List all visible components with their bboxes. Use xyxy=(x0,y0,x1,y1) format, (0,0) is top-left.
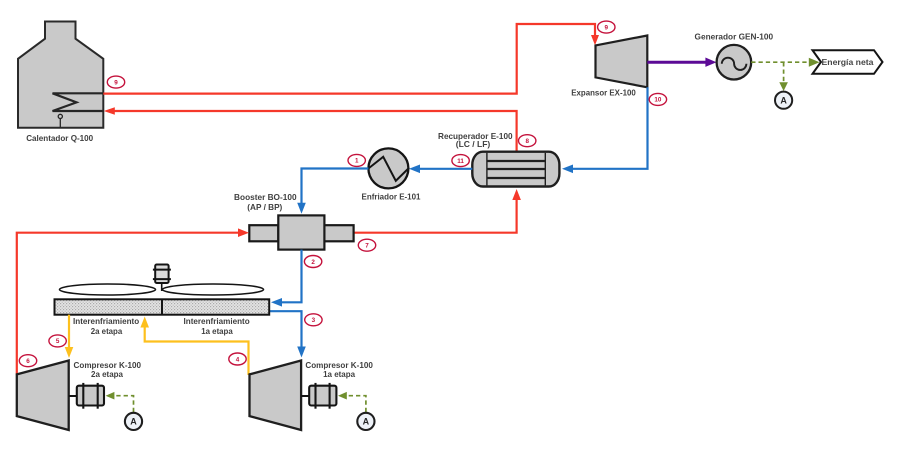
compressor K-100 2a etapa xyxy=(17,361,69,431)
svg-text:Calentador Q-100: Calentador Q-100 xyxy=(26,133,93,143)
meter node A1 xyxy=(775,92,792,109)
recuperator E-100 shell xyxy=(472,152,559,187)
intercooler fan blade right xyxy=(163,284,264,295)
node Energia neta flag xyxy=(813,50,883,74)
svg-text:6: 6 xyxy=(26,358,30,365)
svg-text:Expansor EX-100: Expansor EX-100 xyxy=(571,87,636,97)
label Calentador Q-100 xyxy=(26,133,93,143)
meter node A2 xyxy=(125,413,142,430)
recuperator tubes xyxy=(487,161,545,178)
svg-text:Interenfriamiento: Interenfriamiento xyxy=(73,316,139,326)
svg-text:4: 4 xyxy=(236,356,240,363)
wire energy (generator to Energia neta flag, green dashed) xyxy=(751,58,819,67)
wire stream 1 (cooler to booster, blue) xyxy=(297,169,368,214)
wire stream 4 (compressor 1a to intercooler, orange) xyxy=(140,317,248,376)
expander EX-100 xyxy=(596,36,648,88)
svg-text:(LC / LF): (LC / LF) xyxy=(456,139,491,149)
svg-text:11: 11 xyxy=(457,158,464,165)
wire stream 10 (expander to recuperator, blue) xyxy=(562,87,648,173)
label Expansor EX-100 xyxy=(571,87,636,97)
wire stream 7 (booster to recuperator, red) xyxy=(354,189,521,233)
wire shaft power (expander to generator, purple) xyxy=(647,58,716,67)
label Booster BO-100 (AP / BP) xyxy=(234,192,297,212)
label Generador GEN-100 xyxy=(695,32,774,42)
svg-text:Booster BO-100: Booster BO-100 xyxy=(234,192,297,202)
cooler E-101 xyxy=(368,148,408,188)
stream label oval 2 xyxy=(304,256,321,268)
intercooler fan blade left xyxy=(60,284,156,295)
stream label oval 5 xyxy=(49,335,66,347)
compressor 2a motor coupling xyxy=(69,383,104,409)
wire stream 11 (recuperator to cooler, blue) xyxy=(409,165,472,174)
stream label oval 7 xyxy=(358,239,375,251)
svg-text:1: 1 xyxy=(355,158,359,165)
svg-text:A: A xyxy=(363,417,370,427)
meter node A3 xyxy=(357,413,374,430)
stream label oval 1 xyxy=(348,154,365,166)
svg-text:10: 10 xyxy=(654,97,662,104)
label Interenfriamiento 2a etapa xyxy=(73,316,139,336)
intercooler tube bank xyxy=(55,299,270,314)
label Recuperador E-100 (LC / LF) xyxy=(438,131,513,149)
label Interenfriamiento 1a etapa xyxy=(184,316,250,336)
label Compresor K-100 1a etapa xyxy=(305,360,373,379)
svg-text:2a etapa: 2a etapa xyxy=(91,326,123,336)
wire energy to compressor 2a motor (green dashed) xyxy=(106,392,134,412)
svg-text:(AP / BP): (AP / BP) xyxy=(247,202,282,212)
wire stream 6 (compressor 2a to booster, red) xyxy=(17,228,249,374)
svg-text:7: 7 xyxy=(365,243,369,250)
svg-text:2: 2 xyxy=(311,259,315,266)
wire stream 5 (intercooler to compressor 2a, orange) xyxy=(65,315,74,358)
stream label oval 8 xyxy=(519,135,536,147)
heater Q-100 body xyxy=(18,22,103,128)
stream label oval 3 xyxy=(305,314,322,326)
svg-text:1a etapa: 1a etapa xyxy=(201,326,233,336)
svg-text:9: 9 xyxy=(605,24,609,31)
generator GEN-100 xyxy=(717,45,752,80)
stream label oval 11 xyxy=(452,155,469,167)
stream label oval 9 at expander xyxy=(598,21,615,33)
wire stream 9 (heater to expander, red) xyxy=(103,24,599,94)
svg-text:A: A xyxy=(130,417,137,427)
svg-text:8: 8 xyxy=(525,138,529,145)
stream label oval 4 xyxy=(229,353,246,365)
compressor 1a motor coupling xyxy=(301,383,336,409)
wire stream 8 (recuperator to heater, red) xyxy=(104,107,517,152)
heater fuel inlet node xyxy=(58,114,62,127)
label Enfriador E-101 xyxy=(362,192,421,202)
svg-text:A: A xyxy=(780,95,787,105)
stream label oval 6 xyxy=(19,355,36,367)
wire stream 2 (booster to intercooler, blue) xyxy=(271,250,302,307)
intercooler fan motor xyxy=(153,265,171,292)
svg-text:5: 5 xyxy=(56,338,60,345)
svg-text:1a etapa: 1a etapa xyxy=(323,369,355,379)
label Compresor K-100 2a etapa xyxy=(74,360,142,379)
wire energy branch to meter A1 (green dashed) xyxy=(779,62,788,91)
svg-text:Enfriador E-101: Enfriador E-101 xyxy=(362,192,421,202)
heater Q-100 coil xyxy=(53,93,104,111)
wire stream 3 (intercooler to compressor 1a, blue) xyxy=(270,311,306,357)
svg-text:3: 3 xyxy=(312,317,316,324)
svg-text:Interenfriamiento: Interenfriamiento xyxy=(184,316,250,326)
stream label oval 10 xyxy=(649,93,666,105)
booster BO-100 xyxy=(249,215,353,249)
svg-text:Energía neta: Energía neta xyxy=(822,57,874,67)
svg-text:9: 9 xyxy=(114,79,118,86)
stream label oval 9 at heater xyxy=(107,76,124,88)
svg-text:2a etapa: 2a etapa xyxy=(91,369,123,379)
compressor K-100 1a etapa xyxy=(250,361,302,431)
wire energy to compressor 1a motor (green dashed) xyxy=(338,392,366,412)
svg-text:Generador GEN-100: Generador GEN-100 xyxy=(695,32,774,42)
